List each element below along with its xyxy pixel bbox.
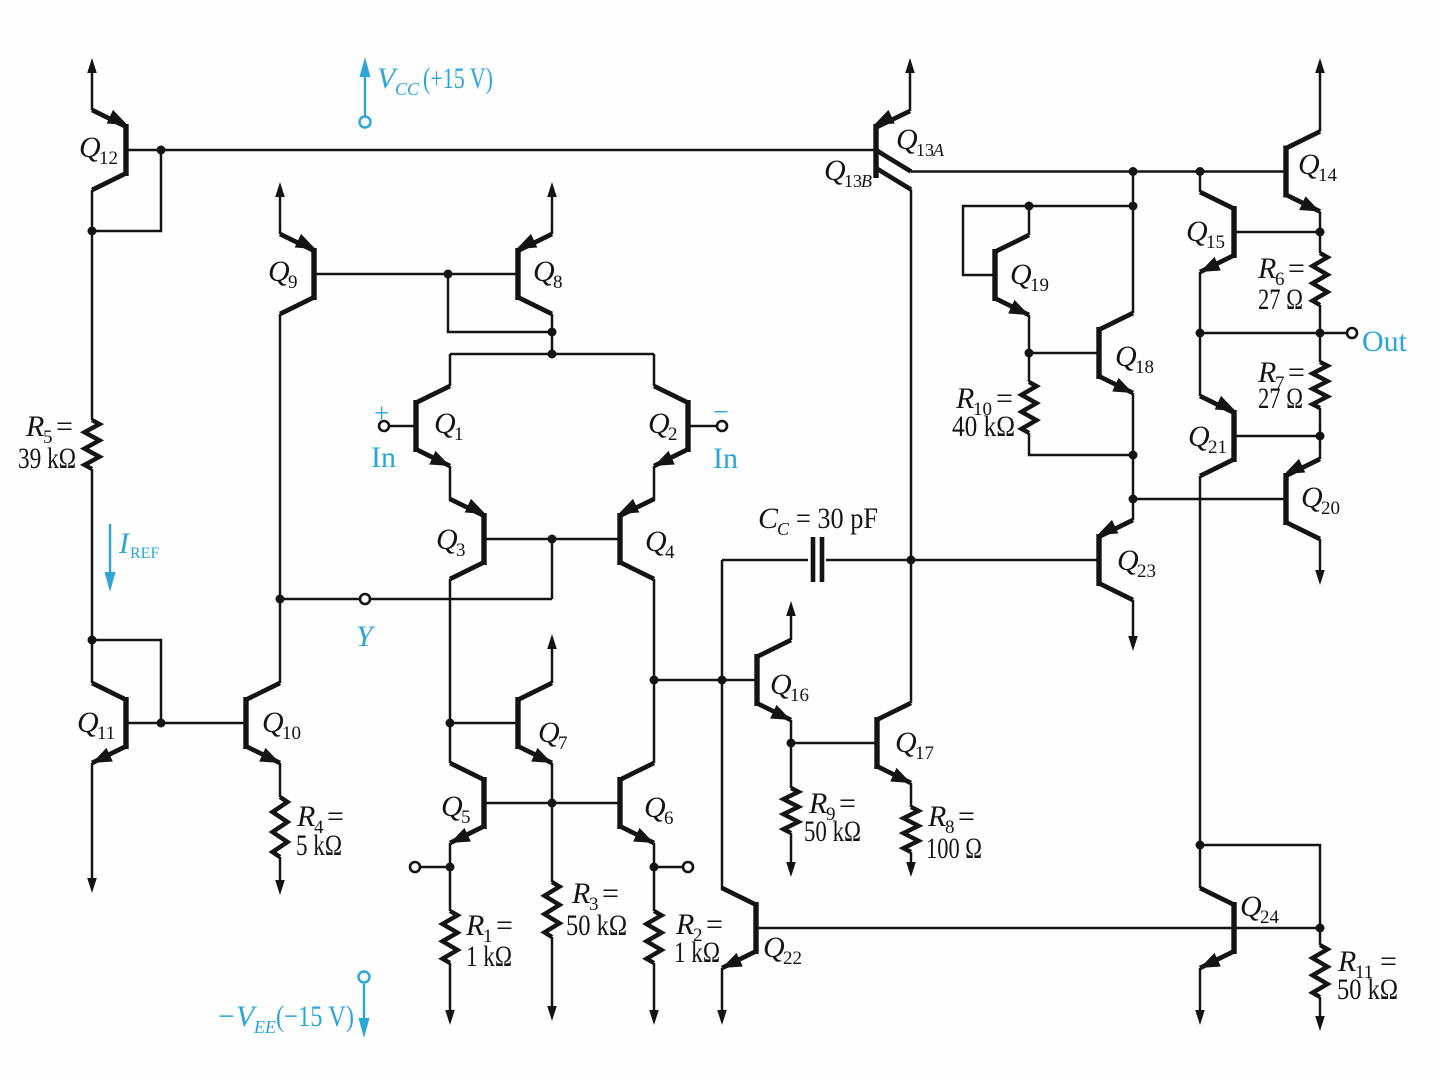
svg-text:Q: Q [262, 706, 284, 739]
svg-text:39 kΩ: 39 kΩ [18, 442, 76, 475]
svg-text:R: R [927, 800, 946, 833]
svg-text:Q: Q [763, 931, 785, 964]
svg-text:Q: Q [824, 154, 846, 187]
svg-text:6: 6 [664, 808, 674, 829]
svg-text:Q: Q [645, 525, 667, 558]
svg-text:23: 23 [1137, 561, 1156, 582]
svg-text:18: 18 [1135, 357, 1154, 378]
svg-text:(+15 V): (+15 V) [423, 62, 493, 95]
svg-text:=: = [958, 800, 975, 833]
svg-text:24: 24 [1260, 907, 1280, 928]
svg-text:Q: Q [1010, 258, 1032, 291]
svg-text:EE: EE [253, 1017, 276, 1037]
svg-text:+: + [374, 398, 389, 428]
svg-text:=: = [1288, 252, 1305, 285]
svg-text:Out: Out [1362, 325, 1408, 358]
svg-text:Q: Q [1117, 544, 1139, 577]
svg-text:REF: REF [130, 545, 159, 562]
svg-text:In: In [713, 442, 738, 475]
svg-text:1 kΩ: 1 kΩ [466, 940, 512, 973]
svg-text:Q: Q [268, 255, 290, 288]
svg-text:21: 21 [1208, 437, 1227, 458]
svg-text:100 Ω: 100 Ω [926, 832, 982, 865]
svg-text:10: 10 [282, 723, 301, 744]
svg-text:−: − [218, 1000, 235, 1033]
svg-text:Q: Q [79, 131, 101, 164]
svg-text:C: C [758, 502, 779, 535]
svg-text:17: 17 [915, 743, 934, 764]
svg-text:Q: Q [1298, 148, 1320, 181]
svg-text:−: − [713, 397, 729, 428]
svg-text:Q: Q [644, 791, 666, 824]
svg-text:Q: Q [436, 523, 458, 556]
svg-text:= 30 pF: = 30 pF [796, 502, 878, 535]
svg-text:27 Ω: 27 Ω [1258, 382, 1303, 415]
svg-text:R: R [25, 410, 44, 443]
svg-text:1 kΩ: 1 kΩ [674, 936, 720, 969]
svg-text:Q: Q [895, 726, 917, 759]
svg-text:40 kΩ: 40 kΩ [952, 410, 1015, 443]
svg-text:1: 1 [454, 424, 464, 445]
svg-text:20: 20 [1321, 498, 1340, 519]
svg-text:50 kΩ: 50 kΩ [566, 909, 627, 942]
svg-text:(−15 V): (−15 V) [276, 1000, 354, 1033]
svg-text:11: 11 [97, 723, 115, 744]
svg-text:A: A [932, 140, 945, 160]
svg-text:15: 15 [1206, 232, 1225, 253]
svg-text:Q: Q [538, 716, 560, 749]
svg-text:13: 13 [844, 171, 862, 191]
svg-text:=: = [496, 909, 513, 942]
svg-text:B: B [861, 171, 872, 191]
svg-text:CC: CC [395, 79, 420, 99]
svg-text:Q: Q [77, 706, 99, 739]
svg-text:R: R [571, 877, 590, 910]
svg-text:R: R [1257, 252, 1276, 285]
svg-text:=: = [602, 877, 619, 910]
svg-text:50 kΩ: 50 kΩ [1337, 973, 1398, 1006]
svg-text:5: 5 [461, 807, 471, 828]
svg-text:Q: Q [434, 407, 456, 440]
svg-text:Q: Q [648, 407, 670, 440]
svg-text:3: 3 [456, 540, 466, 561]
svg-text:In: In [371, 441, 396, 474]
svg-text:C: C [777, 519, 790, 539]
svg-text:Q: Q [1115, 340, 1137, 373]
svg-text:Q: Q [896, 123, 918, 156]
svg-text:16: 16 [790, 685, 809, 706]
svg-text:Q: Q [770, 668, 792, 701]
svg-text:Q: Q [441, 790, 463, 823]
svg-text:Q: Q [1188, 420, 1210, 453]
svg-text:Q: Q [1301, 481, 1323, 514]
svg-text:=: = [56, 410, 73, 443]
svg-text:8: 8 [553, 272, 563, 293]
svg-text:Q: Q [1186, 215, 1208, 248]
svg-text:Q: Q [1240, 890, 1262, 923]
svg-text:Q: Q [533, 255, 555, 288]
svg-text:19: 19 [1030, 275, 1049, 296]
svg-text:13: 13 [916, 140, 934, 160]
svg-text:7: 7 [558, 733, 568, 754]
svg-text:2: 2 [668, 424, 678, 445]
svg-text:5 kΩ: 5 kΩ [296, 829, 342, 862]
svg-text:14: 14 [1318, 165, 1338, 186]
svg-text:R: R [465, 909, 484, 942]
svg-text:27 Ω: 27 Ω [1258, 283, 1303, 316]
svg-text:12: 12 [99, 148, 118, 169]
svg-text:22: 22 [783, 948, 802, 969]
svg-text:4: 4 [665, 542, 675, 563]
svg-text:9: 9 [288, 272, 298, 293]
svg-text:50 kΩ: 50 kΩ [804, 815, 861, 848]
